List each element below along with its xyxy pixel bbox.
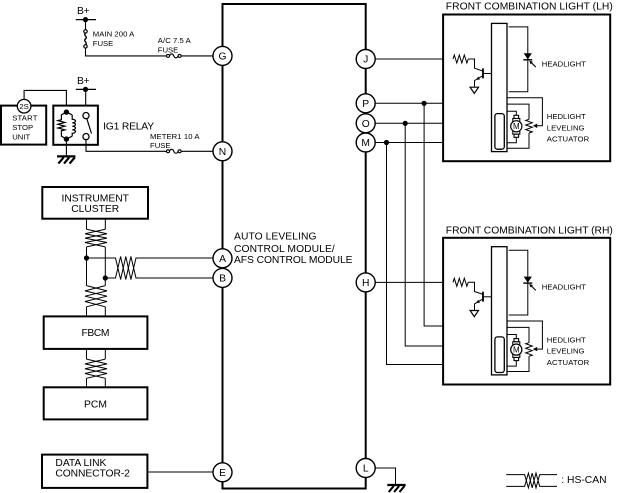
relay switch	[83, 113, 92, 140]
svg-text:LEVELING: LEVELING	[547, 347, 585, 356]
start stop unit label	[12, 113, 37, 141]
fuse MAIN 200 A	[84, 30, 135, 49]
RH wire resistor to transistor	[468, 282, 483, 294]
terminal L	[356, 459, 375, 478]
svg-text:MAIN 200 A: MAIN 200 A	[93, 30, 135, 39]
wire 2S to relay coil	[24, 90, 66, 110]
svg-text:L: L	[363, 464, 369, 475]
relay coil	[58, 109, 76, 141]
svg-text:IG1 RELAY: IG1 RELAY	[103, 121, 154, 132]
svg-text:M: M	[513, 346, 520, 355]
wire P drop to RH	[424, 103, 491, 326]
wire CAN pair to FBCM	[87, 307, 106, 317]
svg-text:B+: B+	[77, 76, 90, 87]
svg-text:LEVELING: LEVELING	[547, 123, 585, 132]
LH connector strip	[492, 23, 508, 151]
twisted pair symbol 1	[85, 229, 107, 247]
fuse METER1 10 A	[150, 132, 200, 153]
junction O	[403, 121, 408, 126]
wire to terminal G	[181, 55, 214, 57]
wire switch to METER1 fuse	[86, 140, 166, 152]
svg-text:M: M	[361, 138, 370, 149]
data link connector-2 box	[42, 455, 147, 488]
LH resistor	[453, 55, 468, 63]
wire to A with twist	[87, 257, 215, 280]
front combination light (RH)	[443, 238, 610, 385]
svg-text:HEADLIGHT: HEADLIGHT	[542, 283, 586, 292]
terminal P	[356, 94, 375, 113]
wire O drop to RH	[405, 123, 495, 346]
svg-text:FRONT COMBINATION LIGHT (LH): FRONT COMBINATION LIGHT (LH)	[446, 2, 613, 13]
wire J to LH resistor	[375, 58, 453, 60]
legend HS-CAN symbol	[506, 473, 557, 488]
svg-text:G: G	[218, 52, 226, 63]
wire M drop to RH	[387, 143, 495, 365]
RH headlight diode	[523, 277, 536, 291]
wire L to ground	[375, 468, 395, 484]
RH resistor	[453, 278, 468, 286]
wire H to RH resistor	[375, 281, 453, 283]
svg-text:O: O	[362, 119, 370, 130]
LH transistor	[475, 68, 492, 86]
LH motor	[511, 115, 522, 137]
svg-text:DATA LINK: DATA LINK	[55, 458, 106, 469]
RH chassis triangle	[470, 311, 478, 317]
svg-text:HEDLIGHT: HEDLIGHT	[547, 112, 586, 121]
wire B+ to relay switch	[85, 89, 87, 112]
svg-text:B+: B+	[77, 6, 90, 17]
terminal G	[213, 46, 232, 65]
wire B+ to fuse	[85, 20, 87, 30]
node B+ (relay)	[76, 76, 96, 92]
wire P to LH connector	[375, 102, 491, 104]
junction M	[384, 140, 389, 145]
node B+ (top)	[76, 6, 96, 22]
ground (L)	[387, 485, 405, 492]
LH inner connector	[495, 114, 504, 150]
LH headlight diode	[523, 53, 536, 67]
svg-text:A/C 7.5 A: A/C 7.5 A	[158, 36, 192, 45]
svg-text:ACTUATOR: ACTUATOR	[547, 135, 590, 144]
RH actuator resistor	[526, 343, 533, 357]
svg-text:CLUSTER: CLUSTER	[71, 204, 119, 215]
svg-text:HEADLIGHT: HEADLIGHT	[542, 59, 586, 68]
svg-text:HEDLIGHT: HEDLIGHT	[547, 335, 586, 344]
junction P	[422, 101, 427, 106]
svg-text:E: E	[219, 468, 226, 479]
RH box	[443, 238, 610, 385]
svg-text:INSTRUMENT: INSTRUMENT	[61, 194, 129, 205]
wire CAN pair (cluster down)	[87, 219, 106, 230]
data link connector-2 label	[55, 458, 130, 480]
wire M to LH connector	[375, 142, 495, 144]
terminal N	[213, 142, 232, 161]
instrument cluster label	[61, 194, 129, 216]
module label	[234, 232, 353, 267]
wire to B with twist	[105, 257, 214, 280]
RH motor wires	[507, 335, 516, 367]
start stop unit box	[1, 106, 46, 145]
svg-text:AUTO LEVELING: AUTO LEVELING	[234, 232, 317, 243]
wire CAN pair mid	[87, 247, 106, 286]
svg-text:ACTUATOR: ACTUATOR	[547, 358, 590, 367]
terminal H	[356, 273, 375, 292]
module box (auto leveling control module)	[223, 4, 366, 489]
ground (relay)	[57, 156, 75, 163]
twisted pair symbol 3	[85, 359, 107, 378]
terminal O	[356, 114, 375, 133]
RH actuator resistor loop	[507, 327, 529, 371]
terminal E	[213, 463, 232, 482]
RH wiper arrow	[533, 347, 537, 351]
instrument cluster box	[42, 187, 148, 219]
relay IG1 box	[53, 106, 98, 145]
twisted pair symbol 2	[85, 286, 107, 307]
LH actuator wiper wire	[507, 98, 542, 126]
PCM box	[44, 387, 148, 419]
RH inner connector	[495, 337, 504, 373]
svg-text:AFS CONTROL MODULE: AFS CONTROL MODULE	[234, 255, 353, 266]
wire DLC to terminal E	[147, 471, 214, 473]
RH headlight loop	[509, 250, 528, 315]
LH actuator resistor	[526, 119, 533, 133]
LH motor wires	[507, 111, 516, 143]
fuse A/C 7.5 A	[158, 36, 192, 58]
RH actuator label	[547, 335, 590, 367]
svg-text:P: P	[362, 99, 369, 110]
svg-text:A: A	[219, 254, 226, 265]
RH actuator wiper wire	[507, 321, 542, 349]
wire CAN pair FBCM-PCM	[87, 349, 106, 359]
terminal B	[213, 268, 232, 287]
svg-text:UNIT: UNIT	[12, 133, 30, 142]
LH actuator resistor loop	[507, 104, 529, 148]
wire fuse to A/C fuse	[86, 48, 167, 56]
wire coil to ground	[65, 139, 67, 156]
svg-text:METER1 10 A: METER1 10 A	[150, 132, 200, 141]
svg-text:FRONT COMBINATION LIGHT (RH): FRONT COMBINATION LIGHT (RH)	[446, 226, 613, 237]
RH motor	[511, 339, 522, 361]
wire CAN pair to PCM	[87, 378, 106, 387]
RH transistor	[475, 292, 492, 310]
terminal J	[356, 50, 375, 69]
terminal A	[213, 249, 232, 268]
svg-text:PCM: PCM	[84, 399, 107, 410]
svg-text:CONNECTOR-2: CONNECTOR-2	[55, 469, 130, 480]
terminal M	[356, 133, 375, 152]
LH wire resistor to transistor	[468, 59, 483, 71]
svg-text:CONTROL MODULE/: CONTROL MODULE/	[234, 244, 335, 255]
svg-text:: HS-CAN: : HS-CAN	[561, 475, 606, 486]
LH wiper arrow	[533, 124, 537, 128]
svg-text:J: J	[363, 55, 368, 66]
svg-text:M: M	[513, 122, 520, 131]
wire O to LH connector	[375, 122, 495, 124]
svg-text:2S: 2S	[19, 102, 28, 111]
LH box	[443, 15, 610, 162]
RH connector strip	[492, 247, 508, 375]
svg-text:B: B	[219, 274, 226, 285]
connector 2S	[17, 99, 31, 113]
svg-text:FUSE: FUSE	[150, 141, 171, 150]
svg-text:FUSE: FUSE	[93, 39, 114, 48]
LH actuator label	[547, 112, 590, 144]
wire to terminal N	[181, 150, 214, 152]
svg-text:STOP: STOP	[12, 123, 33, 132]
svg-text:N: N	[219, 147, 226, 158]
svg-text:FBCM: FBCM	[82, 328, 110, 339]
front combination light (LH)	[443, 15, 610, 162]
junction CAN-H	[84, 255, 89, 260]
svg-text:START: START	[12, 113, 37, 122]
junction CAN-L	[103, 275, 108, 280]
svg-text:H: H	[362, 278, 369, 289]
LH chassis triangle	[470, 87, 478, 93]
svg-text:FUSE: FUSE	[158, 45, 179, 54]
LH headlight loop	[509, 27, 528, 92]
FBCM box	[44, 316, 148, 349]
